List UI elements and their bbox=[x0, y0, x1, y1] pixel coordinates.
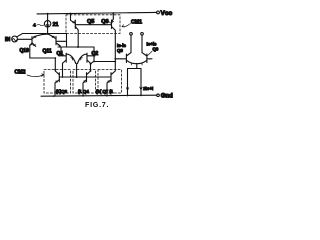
wire CM2 leader arrow bbox=[27, 75, 44, 77]
svg-text:Q11: Q11 bbox=[43, 49, 52, 55]
wire loop right side bbox=[66, 34, 68, 48]
transistor Q10 bbox=[31, 37, 33, 45]
svg-text:CM2: CM2 bbox=[15, 70, 26, 76]
node rail-source junction bbox=[47, 13, 49, 15]
svg-text:(1 Q4: (1 Q4 bbox=[78, 89, 89, 94]
terminal Gnd bbox=[157, 94, 160, 97]
wire Q10 collector loop bbox=[30, 45, 56, 71]
current mirror CM1 box bbox=[66, 15, 120, 34]
svg-text:FIG.7.: FIG.7. bbox=[85, 100, 109, 109]
terminal Vcc bbox=[157, 11, 160, 14]
svg-text:2Io+I: 2Io+I bbox=[143, 86, 153, 91]
current mirror CM2 box Q7 bbox=[98, 70, 122, 94]
transistor Q11 bbox=[55, 37, 57, 45]
transistor Q6 bbox=[112, 13, 114, 19]
wire CM1 leader arrow bbox=[122, 24, 131, 27]
svg-text:Q5: Q5 bbox=[87, 19, 94, 25]
svg-text:Q8: Q8 bbox=[117, 48, 123, 53]
svg-text:Q10: Q10 bbox=[20, 48, 30, 54]
svg-text:Q6: Q6 bbox=[101, 19, 108, 25]
svg-text:21: 21 bbox=[53, 22, 59, 28]
transistor Q4 bbox=[86, 73, 88, 82]
svg-text:Gnd: Gnd bbox=[161, 94, 173, 100]
current source 21 bbox=[47, 14, 49, 21]
node rail-Q5 junction bbox=[70, 13, 72, 15]
node source-emitter junction bbox=[47, 33, 49, 35]
terminal Q8 output bbox=[130, 33, 133, 36]
wire tail to CM2 bases bbox=[76, 62, 78, 65]
wire mirror base tie bbox=[75, 24, 111, 26]
label output current 2Io+1 bbox=[140, 87, 143, 90]
wire mid bus y47 bbox=[58, 46, 94, 48]
svg-text:Vcc: Vcc bbox=[161, 10, 173, 17]
wire ground rail bbox=[41, 95, 157, 96]
svg-text:(1( Q7 (1: (1( Q7 (1 bbox=[96, 89, 114, 94]
terminal Q9 output bbox=[141, 33, 144, 36]
svg-text:Q2: Q2 bbox=[92, 51, 99, 57]
svg-text:4: 4 bbox=[33, 23, 36, 29]
current mirror CM2 box Q3 bbox=[44, 70, 71, 94]
svg-text:(1)Q3: (1)Q3 bbox=[56, 89, 68, 94]
wire IN to Q10 base bbox=[18, 38, 33, 40]
node Q5 tap bbox=[77, 46, 79, 48]
current mirror CM2 box Q4 bbox=[73, 70, 96, 94]
svg-text:CM1: CM1 bbox=[131, 20, 142, 26]
wire IN upper to loop top bbox=[17, 34, 67, 37]
svg-text:IN: IN bbox=[5, 37, 10, 43]
transistor Q2 bbox=[86, 53, 88, 62]
transistor Q3 bbox=[58, 73, 60, 82]
wire Q8/Q9 emitter node bbox=[136, 64, 138, 69]
wire CM2 base bus bbox=[59, 76, 111, 78]
svg-text:Q1: Q1 bbox=[57, 51, 64, 57]
node rail-Q6 junction bbox=[112, 12, 114, 14]
transistor Q7 bbox=[110, 73, 112, 82]
transistor Q5 bbox=[70, 14, 72, 21]
transistor Q1 bbox=[65, 53, 67, 62]
wire Vcc top rail bbox=[37, 12, 157, 14]
wire Q2/Q4 node to right bbox=[90, 63, 92, 65]
svg-text:Q9: Q9 bbox=[153, 46, 159, 51]
